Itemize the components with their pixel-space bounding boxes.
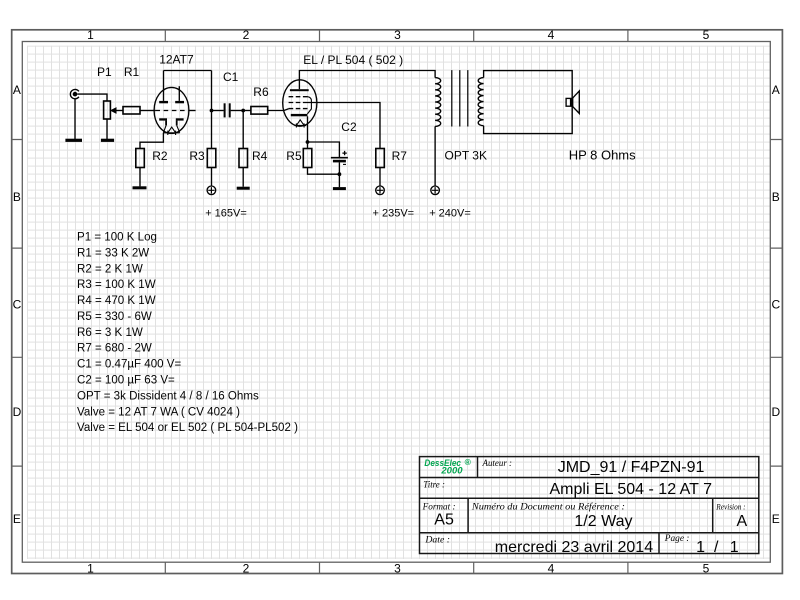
resistor R2 [136,149,145,168]
svg-text:A: A [737,513,748,530]
svg-text:Page :: Page : [664,533,690,543]
svg-text:Numéro du Document ou Référenc: Numéro du Document ou Référence : [471,502,625,513]
V2 grid g2 (dashed) [289,102,301,104]
wire V2 screen g2 to R7 [303,103,380,149]
svg-text:Valve = 12 AT 7 WA ( CV 4024 ): Valve = 12 AT 7 WA ( CV 4024 ) [77,406,240,418]
svg-text:+ 235V=: + 235V= [373,207,415,219]
speaker HP [566,91,579,114]
wire V2 cathode down to node C [307,116,309,142]
tube V2 EL504 envelope [283,80,317,126]
svg-text:3: 3 [394,28,401,42]
wire R1 to tube grid [140,110,155,112]
wire primary to +240V terminal [434,126,436,186]
svg-text:P1 = 100 K Log: P1 = 100 K Log [77,232,157,244]
wire R6 to V2 grid [268,109,289,111]
zone letters right [771,83,780,526]
svg-text:A: A [13,83,21,97]
transformer T1 core [452,70,468,126]
svg-text:Auteur :: Auteur : [482,458,512,468]
resistor R1 [123,107,140,114]
V2 cathode [291,114,308,116]
ground (R2) [133,186,147,189]
V2 heater [295,120,307,128]
wire R3 to +165V terminal [211,168,213,187]
zone numbers top [87,28,710,42]
zone ticks top [165,30,628,42]
connector P1 input jack [70,89,79,98]
wire V2 plate to transformer [299,71,435,90]
svg-text:1: 1 [87,28,94,42]
wire node A to C1 [212,110,224,112]
ground (C2/R5) [333,187,346,190]
wire jack to potentiometer [77,94,107,101]
svg-text:C2: C2 [341,120,357,134]
svg-text:Titre :: Titre : [423,480,445,490]
wire R5 bottom to node D [308,168,340,175]
svg-text:R3: R3 [189,149,205,163]
svg-text:Valve = EL 504 or EL 502 ( PL: Valve = EL 504 or EL 502 ( PL 504-PL502 … [77,422,298,434]
svg-text:Ampli EL 504 - 12 AT 7: Ampli EL 504 - 12 AT 7 [550,481,713,498]
wire node B to R4 [242,111,244,149]
title block frame [420,457,759,554]
svg-text:R4 = 470 K 1W: R4 = 470 K 1W [77,295,156,307]
wire node C to R5 [307,142,309,149]
svg-text:R1 = 33 K 2W: R1 = 33 K 2W [77,247,149,259]
svg-text:C: C [771,298,780,312]
svg-text:Format :: Format : [422,502,456,512]
potentiometer P1 [104,101,123,119]
wire node C to C2 [308,142,340,157]
resistor R6 [251,107,268,115]
svg-text:P1: P1 [97,65,112,79]
node B junction [241,109,245,113]
svg-text:R2 = 2 K 1W: R2 = 2 K 1W [77,263,143,275]
svg-text:R5: R5 [286,149,302,163]
svg-text:R7 = 680 - 2W: R7 = 680 - 2W [77,343,152,355]
wire pot to ground [106,119,108,139]
svg-text:1: 1 [696,539,705,556]
svg-text:2: 2 [243,28,250,42]
transformer T1 secondary winding [478,78,483,126]
wire C2 to node D [338,162,340,174]
svg-text:/: / [714,539,719,556]
wire plate top horizontal [164,70,212,72]
wire R4 to ground [242,168,244,187]
transformer T1 primary winding [435,78,441,127]
svg-text:E: E [772,512,780,526]
wire C1 to node B [231,110,244,112]
svg-text:1: 1 [87,561,94,575]
svg-text:R7: R7 [392,149,408,163]
svg-text:1: 1 [730,539,739,556]
V1 anode plates [159,101,184,103]
zone ticks bottom [165,562,628,573]
terminal +235V [376,186,385,195]
svg-text:A: A [772,83,780,97]
svg-text:Date :: Date : [424,534,450,544]
ground (jack) [65,139,82,142]
wire V1 plate lead up [163,71,165,101]
svg-text:1/2 Way: 1/2 Way [574,513,632,530]
svg-text:+ 165V=: + 165V= [205,207,247,219]
svg-text:+ 240V=: + 240V= [429,207,471,219]
terminal +240V [431,186,440,195]
tube V1 12AT7 envelope [154,87,189,133]
svg-text:D: D [13,405,22,419]
svg-text:R1: R1 [124,65,140,79]
svg-text:EL / PL 504 ( 502 ): EL / PL 504 ( 502 ) [303,53,403,67]
capacitor C2 electrolytic [331,151,348,165]
parts list text [77,232,298,435]
V2 grid g3 (dashed) [289,96,308,98]
svg-text:R5 = 330 - 6W: R5 = 330 - 6W [77,311,152,323]
ground (R4) [237,187,250,190]
resistor R7 [376,149,385,168]
V1 right plate stub [178,86,180,101]
resistor R4 [239,149,248,168]
svg-text:4: 4 [548,28,555,42]
svg-text:5: 5 [703,561,710,575]
terminal +165V [207,186,216,195]
svg-text:R3 = 100 K 1W: R3 = 100 K 1W [77,279,156,291]
svg-text:E: E [13,512,21,526]
svg-text:OPT = 3k Dissident 4 / 8 / 16: OPT = 3k Dissident 4 / 8 / 16 Ohms [77,390,259,402]
svg-text:JMD_91 / F4PZN-91: JMD_91 / F4PZN-91 [558,459,705,476]
svg-text:D: D [771,405,780,419]
svg-text:4: 4 [548,561,555,575]
svg-text:2000: 2000 [440,465,462,475]
wire plate drop to node A [211,71,213,149]
V1 cathodes [159,118,183,132]
V1 grid right stub [189,110,196,112]
svg-text:3: 3 [394,561,401,575]
V2 grid g1 (dashed) [289,108,308,110]
svg-text:A5: A5 [434,512,454,529]
svg-text:12AT7: 12AT7 [159,53,194,67]
svg-text:OPT 3K: OPT 3K [445,149,487,163]
svg-text:mercredi 23 avril 2014: mercredi 23 avril 2014 [495,539,653,556]
zone numbers bottom [87,561,710,575]
svg-text:C: C [13,298,22,312]
wire node B to R6 [243,110,251,112]
page value 1 / 1 [696,539,739,556]
svg-text:C1 = 0.47µF 400 V=: C1 = 0.47µF 400 V= [77,359,181,371]
wire R7 to +235V terminal [379,168,381,187]
node D junction [338,172,342,176]
svg-text:R4: R4 [252,149,268,163]
svg-text:5: 5 [703,28,710,42]
V2 g3 hook to cathode [307,97,311,114]
svg-text:R6: R6 [253,85,269,99]
svg-text:B: B [772,190,780,204]
V2 anode plate [290,89,309,91]
node C junction [306,140,310,144]
resistor R3 [207,149,216,168]
wire V1 cathode to R2 [140,133,163,149]
wire R2 to ground [139,168,141,187]
svg-text:B: B [13,190,21,204]
wire node D to ground [338,174,340,187]
zone ticks right [770,140,782,467]
svg-text:R6 = 3 K 1W: R6 = 3 K 1W [77,327,143,339]
node A junction [210,109,214,113]
wire jack to ground [74,99,76,139]
zone letters left [13,83,22,526]
svg-text:HP 8 Ohms: HP 8 Ohms [569,148,636,163]
svg-text:®: ® [465,457,472,467]
V1 grid (dashed) [155,110,189,112]
logo DessElec 2000 [424,457,471,475]
wire secondary to speaker loop [484,71,573,134]
ground (pot) [101,139,114,142]
zone ticks left [12,140,23,467]
svg-text:R2: R2 [152,149,168,163]
svg-text:Revision :: Revision : [715,502,745,512]
svg-text:C2 = 100 µF 63 V=: C2 = 100 µF 63 V= [77,375,175,387]
svg-text:2: 2 [243,561,250,575]
V1 heater [163,127,179,135]
capacitor C1 [225,103,230,117]
resistor R5 [303,149,312,168]
svg-text:C1: C1 [223,70,239,84]
